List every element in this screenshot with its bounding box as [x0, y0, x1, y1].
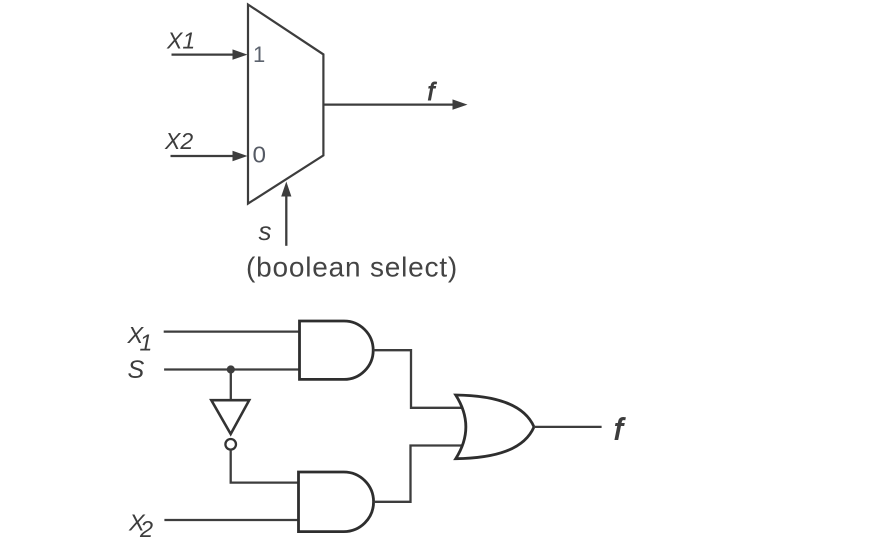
wire OR gate output f	[534, 426, 602, 428]
wire AND G1 output to OR gate	[373, 350, 462, 408]
wire S junction to inverter	[230, 370, 232, 400]
wire x2 to AND gate G2	[164, 519, 299, 521]
svg-text:S: S	[128, 356, 145, 384]
AND gate G1	[300, 321, 374, 379]
wire X2 input with arrowhead	[171, 151, 248, 161]
inverter U2 (NOT gate triangle)	[211, 400, 249, 434]
label x1 (gate circuit input)	[127, 322, 153, 356]
multiplexer U1 body (trapezoid)	[248, 5, 323, 204]
wire s select input with arrowhead	[281, 182, 291, 246]
svg-text:X2: X2	[164, 128, 193, 154]
svg-text:2: 2	[139, 516, 153, 542]
wire AND G2 output to OR gate	[374, 446, 463, 502]
wire X1 input with arrowhead	[172, 49, 248, 59]
svg-text:1: 1	[140, 330, 153, 356]
svg-text:f: f	[614, 412, 626, 447]
svg-text:X1: X1	[166, 28, 195, 54]
svg-text:f: f	[428, 78, 438, 106]
wire S to AND gate G1	[164, 368, 300, 370]
label x2 (gate circuit input)	[128, 510, 153, 543]
svg-text:0: 0	[253, 141, 267, 167]
inverter U2 bubble	[225, 439, 236, 450]
svg-text:s: s	[259, 216, 272, 246]
svg-text:1: 1	[253, 42, 265, 67]
AND gate G2	[299, 472, 374, 532]
svg-text:(boolean select): (boolean select)	[246, 252, 458, 283]
OR gate G3	[456, 395, 534, 459]
wire inverter output to AND gate G2	[231, 450, 299, 483]
wire f output of mux with arrowhead	[323, 99, 467, 109]
wire x1 to AND gate G1	[164, 330, 300, 332]
junction dot on S wire	[227, 365, 235, 373]
